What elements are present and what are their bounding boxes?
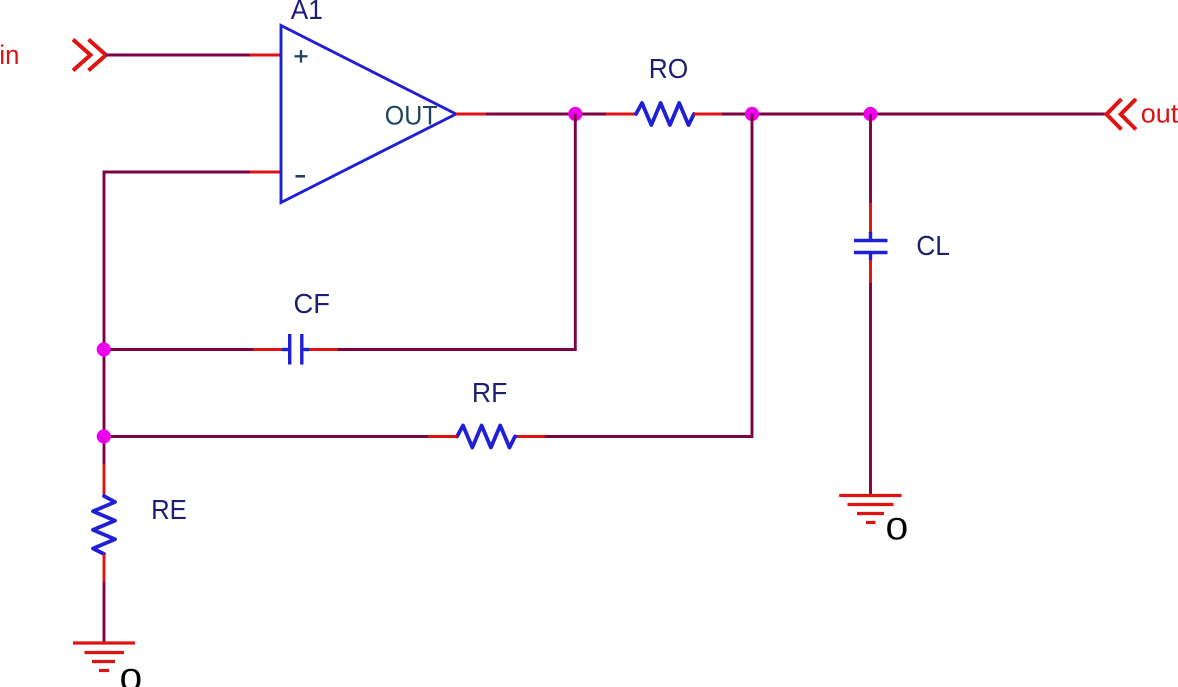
ground right xyxy=(839,496,901,523)
wire xyxy=(104,172,250,464)
capacitor CL xyxy=(854,232,888,260)
pin RO left xyxy=(606,113,636,116)
wire xyxy=(869,114,872,203)
svg-text:out: out xyxy=(1141,98,1178,128)
wire xyxy=(486,113,606,116)
op-amp A1 xyxy=(281,26,456,203)
svg-text:A1: A1 xyxy=(291,0,323,25)
pin CL top xyxy=(869,203,872,232)
resistor RO xyxy=(636,103,694,125)
node junction dot RF xyxy=(97,429,111,443)
svg-text:RO: RO xyxy=(649,53,689,84)
pin CL bottom xyxy=(869,260,872,283)
wire xyxy=(338,114,575,350)
node junction dot 3 xyxy=(863,107,877,121)
pin RE top xyxy=(103,464,106,496)
wire xyxy=(722,113,1106,116)
svg-text:in: in xyxy=(0,40,19,70)
svg-text:CL: CL xyxy=(916,230,950,261)
svg-text:CF: CF xyxy=(294,288,331,319)
pin RE bottom xyxy=(103,554,106,582)
pin RF left xyxy=(428,435,457,438)
wire xyxy=(104,435,428,438)
wire xyxy=(106,54,250,57)
svg-text:0: 0 xyxy=(886,511,909,546)
wire xyxy=(869,283,872,496)
pin RF right xyxy=(515,435,545,438)
wire xyxy=(104,348,253,351)
svg-text:OUT: OUT xyxy=(385,100,438,130)
pin - input xyxy=(250,171,282,174)
node junction dot 1 xyxy=(568,107,582,121)
pin output xyxy=(456,113,486,116)
pin CF left xyxy=(253,348,282,351)
ground left xyxy=(73,643,135,671)
svg-text:RE: RE xyxy=(151,494,187,525)
pin CF right xyxy=(309,348,338,351)
svg-text:RF: RF xyxy=(472,377,507,408)
wire xyxy=(103,582,106,642)
svg-text:0: 0 xyxy=(120,662,143,687)
wire xyxy=(545,114,752,437)
port in chevron xyxy=(73,40,106,71)
resistor RF xyxy=(457,426,515,448)
pin + input xyxy=(250,54,282,57)
capacitor CF xyxy=(282,334,309,365)
node junction dot CF xyxy=(97,342,111,356)
pin RO right xyxy=(694,113,722,116)
node junction dot 2 xyxy=(745,107,759,121)
resistor RE xyxy=(93,496,115,554)
port out chevron xyxy=(1107,99,1137,130)
